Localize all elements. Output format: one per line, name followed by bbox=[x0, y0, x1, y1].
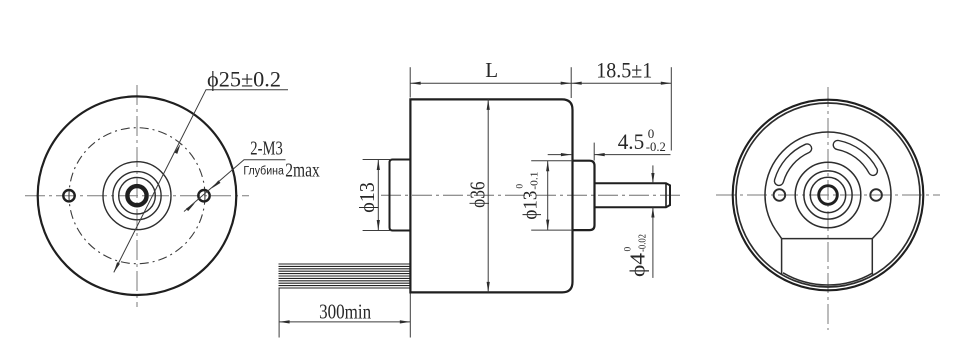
svg-text:-0.1: -0.1 bbox=[530, 172, 541, 190]
dimension 300min bbox=[279, 289, 410, 338]
dimension 18.5+-1 bbox=[571, 67, 671, 150]
hub circle r17.7 (rear) bbox=[810, 177, 845, 212]
screw hole right (rear) bbox=[870, 189, 882, 201]
vent slot left bbox=[774, 144, 811, 186]
screw hole left (rear) bbox=[774, 189, 786, 201]
dimension 4.5 (boss length) bbox=[548, 143, 671, 161]
plate-to-connector chamfer right bbox=[872, 230, 880, 239]
arrow on bolt circle lower bbox=[114, 262, 120, 272]
svg-text:4.5: 4.5 bbox=[618, 129, 645, 154]
dimension text phi4 tol (rotated) bbox=[624, 234, 650, 277]
arrow at hole lower-left bbox=[186, 203, 195, 211]
svg-text:0: 0 bbox=[516, 184, 526, 189]
shaft end chamfer line bbox=[665, 183, 667, 207]
dimension phi13 rear boss bbox=[363, 160, 391, 231]
svg-text:0: 0 bbox=[624, 247, 634, 252]
svg-text:300min: 300min bbox=[319, 300, 371, 324]
leader line phi25 bbox=[114, 90, 288, 273]
plate-to-connector chamfer left bbox=[776, 230, 782, 239]
lead wires bundle bbox=[279, 264, 410, 288]
shaft bore bold ring (rear) bbox=[819, 186, 838, 205]
hub circle r34 bbox=[103, 162, 171, 230]
shaft bore (bold ring) bbox=[127, 186, 146, 205]
hub circle r24.1 (rear) bbox=[804, 171, 852, 219]
connector bottom arc bbox=[783, 273, 873, 285]
housing outer circle (rear view) bbox=[733, 100, 924, 291]
hub circle r24 bbox=[113, 172, 161, 220]
left view: front face of motor bbox=[25, 85, 249, 307]
arrow on bolt circle upper bbox=[174, 144, 180, 154]
centerline vertical (left view) bbox=[136, 85, 138, 307]
connector block outline bbox=[782, 239, 873, 275]
motor body rectangle bbox=[410, 99, 572, 292]
middle view: side elevation bbox=[381, 99, 683, 292]
dimension phi36 bbox=[487, 99, 489, 292]
svg-text:Глубина: Глубина bbox=[243, 165, 284, 177]
svg-text:ϕ13: ϕ13 bbox=[520, 191, 542, 220]
svg-text:ϕ13: ϕ13 bbox=[355, 182, 379, 213]
hub circle r18 bbox=[119, 177, 156, 214]
centerline horizontal (right view) bbox=[716, 194, 940, 196]
dimension L bbox=[410, 67, 571, 98]
svg-text:18.5±1: 18.5±1 bbox=[596, 58, 652, 83]
vent slot right bbox=[833, 140, 877, 175]
right view: rear face of motor bbox=[716, 87, 940, 330]
mounting hole right M3 bbox=[198, 190, 209, 201]
leader line 2-M3 bbox=[184, 160, 286, 212]
housing inner circle (rear view) bbox=[736, 103, 920, 287]
centerline vertical (right view) bbox=[827, 87, 829, 330]
svg-text:2max: 2max bbox=[285, 159, 320, 181]
svg-text:L: L bbox=[485, 58, 498, 82]
mounting hole left M3 bbox=[63, 190, 74, 201]
dimension text phi13 tol (rotated) bbox=[516, 172, 542, 220]
dimension phi13-0.1 front boss bbox=[531, 161, 572, 230]
arrow at hole upper-right bbox=[212, 180, 221, 188]
svg-text:-0.02: -0.02 bbox=[638, 234, 649, 252]
svg-text:ϕ4: ϕ4 bbox=[626, 252, 650, 277]
centerline shaft axis bbox=[381, 194, 683, 196]
svg-text:ϕ36: ϕ36 bbox=[465, 181, 489, 208]
bolt circle phi25 (dashed) bbox=[69, 128, 205, 264]
shaft phi4 bbox=[595, 183, 671, 207]
centerline horizontal (left view) bbox=[25, 195, 249, 197]
front boss (right, phi13) bbox=[573, 161, 595, 230]
motor body outer circle (front view) bbox=[38, 96, 237, 295]
svg-text:2-M3: 2-M3 bbox=[250, 138, 282, 160]
svg-text:-0.2: -0.2 bbox=[646, 139, 666, 154]
end cap plate circle bbox=[765, 132, 891, 230]
hub circle r32.8 (rear) bbox=[795, 162, 861, 228]
svg-text:ϕ25±0.2: ϕ25±0.2 bbox=[207, 67, 281, 92]
dimension phi4 shaft bbox=[652, 165, 654, 278]
rear boss (left, phi13) bbox=[390, 160, 410, 231]
